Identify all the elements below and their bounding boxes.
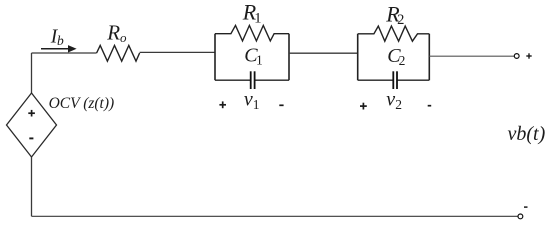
svg-text:C2: C2	[387, 45, 405, 68]
plus sign v1	[219, 101, 226, 108]
resistor Ro	[97, 45, 140, 61]
dependent source OCV diamond	[7, 93, 57, 157]
RC block 2: left bar	[357, 34, 359, 80]
minus sign inside source	[29, 137, 33, 139]
plus sign at positive terminal	[526, 53, 531, 58]
svg-text:Ro: Ro	[106, 21, 127, 45]
svg-text:v1: v1	[244, 89, 260, 112]
minus sign v1	[279, 104, 283, 106]
plus sign v2	[360, 103, 367, 110]
svg-text:vb(t): vb(t)	[508, 123, 546, 145]
svg-text:OCV (z(t)): OCV (z(t))	[49, 95, 115, 112]
node: negative output terminal	[518, 214, 523, 219]
node: positive output terminal	[514, 54, 519, 59]
RC block 1: right bar	[288, 34, 290, 80]
RC block 1: left bar	[214, 34, 216, 80]
capacitor C1 (bottom branch)	[215, 79, 250, 81]
current arrow Ib	[41, 45, 77, 52]
wire: vertical from top wire down to source top	[31, 53, 33, 93]
minus sign at negative terminal	[524, 206, 528, 208]
capacitor C2 (bottom branch)	[358, 79, 393, 81]
wire: bottom return	[32, 215, 519, 217]
resistor R2 (top branch)	[358, 26, 430, 41]
wire: top-left horizontal from source to Ro	[32, 52, 97, 54]
svg-text:C1: C1	[244, 45, 262, 68]
svg-text:R1: R1	[242, 0, 262, 27]
svg-text:v2: v2	[386, 89, 402, 112]
RC block 2: right bar	[428, 34, 430, 80]
resistor R1 (top branch)	[215, 25, 289, 41]
minus sign v2	[428, 105, 432, 107]
svg-text:Ib: Ib	[50, 26, 64, 48]
wire: block1 to block2	[289, 52, 358, 54]
wire: Ro to block1	[140, 51, 215, 53]
plus sign inside source	[28, 110, 35, 117]
svg-text:R2: R2	[385, 1, 404, 28]
wire: block2 to positive terminal	[429, 55, 514, 57]
wire: vertical from source bottom down	[31, 157, 33, 216]
